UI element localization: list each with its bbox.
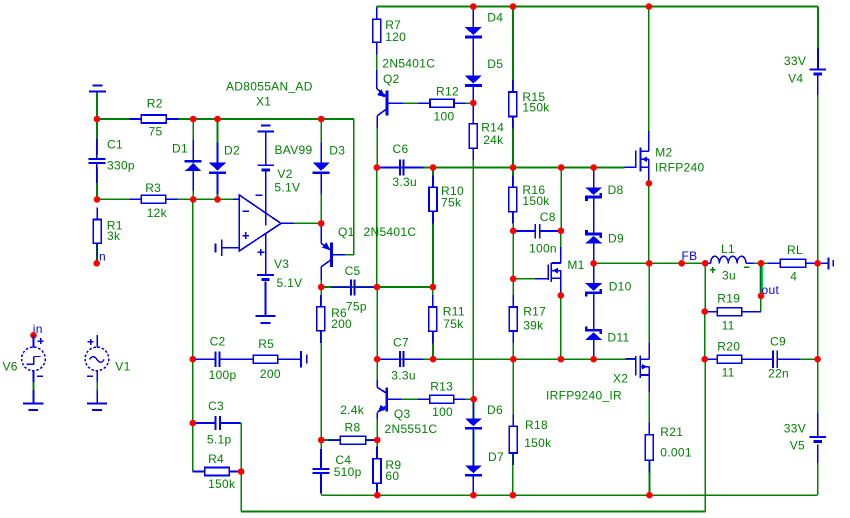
svg-text:100n: 100n	[529, 241, 557, 255]
svg-text:2.4k: 2.4k	[340, 403, 365, 417]
svg-text:39k: 39k	[523, 318, 544, 332]
svg-text:C5: C5	[345, 264, 361, 278]
wire FB output row	[594, 262, 706, 264]
wire col J FB to R19	[704, 263, 706, 311]
svg-text:12k: 12k	[147, 206, 168, 220]
ground V1	[87, 404, 107, 411]
wire R3 row y199	[97, 198, 234, 200]
wire V4 right rail upper	[817, 7, 819, 49]
svg-text:Q3: Q3	[394, 407, 411, 421]
svg-text:5.1V: 5.1V	[274, 180, 300, 194]
wire M1 drain lead	[560, 231, 562, 263]
wire col D C5 to C7	[376, 287, 378, 359]
wire D7 bottom	[472, 478, 474, 496]
svg-text:R13: R13	[430, 379, 453, 393]
diode D4	[465, 7, 482, 58]
svg-text:150k: 150k	[522, 100, 550, 114]
wire R15 top lead	[512, 7, 514, 93]
ground V2 (inverted)	[257, 126, 274, 132]
wire D9 to FB row	[593, 244, 595, 264]
svg-text:V1: V1	[115, 360, 130, 374]
diode D1	[185, 140, 202, 191]
resistor RL	[768, 259, 817, 267]
resistor R6	[317, 295, 325, 343]
wire Q1 base riser	[353, 119, 355, 255]
resistor R20	[705, 355, 754, 363]
svg-text:24k: 24k	[483, 133, 504, 147]
wire R21 bottom	[649, 460, 651, 495]
ground V3	[255, 316, 275, 323]
svg-text:2N5551C: 2N5551C	[385, 422, 438, 436]
zener D9	[585, 213, 602, 264]
resistor R8	[328, 436, 377, 444]
svg-text:IRFP9240_IR: IRFP9240_IR	[546, 388, 622, 402]
wire R18 leads	[512, 359, 514, 426]
wire C3 right corner	[222, 422, 241, 424]
svg-text:5.1V: 5.1V	[277, 276, 303, 290]
svg-text:11: 11	[722, 366, 735, 380]
wire R15 bottom lead	[512, 117, 514, 168]
svg-text:Q2: Q2	[383, 72, 400, 86]
svg-text:75: 75	[149, 124, 163, 138]
svg-text:33V: 33V	[784, 54, 806, 68]
zener D10	[585, 263, 602, 314]
svg-text:100: 100	[434, 110, 455, 124]
svg-text:C1: C1	[107, 138, 123, 152]
svg-text:75p: 75p	[346, 299, 367, 313]
wire V6 stem green part	[33, 382, 35, 390]
op-amp plus input terminal battery	[216, 240, 222, 257]
wire col D Q3 emitter to R8 row	[376, 413, 378, 441]
wire D1 column	[192, 119, 194, 163]
svg-text:150k: 150k	[208, 477, 236, 491]
capacitor C4	[313, 449, 330, 493]
op-amp X1	[222, 171, 281, 274]
wire C2 row	[193, 358, 214, 360]
L1 minus mark	[744, 266, 750, 268]
svg-text:75k: 75k	[441, 195, 462, 209]
resistor R7	[373, 7, 381, 54]
svg-text:D5: D5	[487, 57, 503, 71]
diode D2	[209, 143, 226, 194]
wire R16 leads	[512, 168, 514, 188]
capacitor C8	[515, 224, 560, 239]
svg-text:D8: D8	[608, 183, 624, 197]
node col A vertical C1	[96, 93, 98, 156]
svg-text:75k: 75k	[443, 317, 464, 331]
svg-text:V6: V6	[3, 360, 18, 374]
svg-text:4: 4	[790, 270, 797, 284]
wire col H down	[560, 168, 562, 231]
svg-text:R3: R3	[145, 181, 161, 195]
wire D10 top	[593, 263, 595, 283]
svg-text:C9: C9	[770, 335, 786, 349]
svg-text:X2: X2	[613, 372, 628, 386]
capacitor C5	[331, 279, 375, 295]
zener D8	[585, 167, 602, 218]
svg-text:120: 120	[385, 30, 406, 44]
wire FB row to V5	[817, 263, 819, 413]
transistor Q3 (NPN 2N5551)	[377, 380, 401, 419]
wire feedback riser left	[240, 423, 242, 512]
wire M2 drain from rail	[648, 7, 650, 152]
wire C3 left lead	[193, 422, 214, 424]
svg-text:100: 100	[432, 405, 453, 419]
resistor R14	[469, 103, 477, 160]
diode D5	[465, 56, 482, 107]
wire C7 row	[377, 358, 433, 360]
resistor R15	[509, 80, 517, 129]
svg-text:M2: M2	[655, 145, 672, 159]
svg-text:D3: D3	[329, 144, 345, 158]
MOSFET X2 (IRFP9240 P-ch)	[626, 343, 650, 392]
svg-text:22n: 22n	[768, 367, 789, 381]
wire col F D4 top	[472, 7, 474, 28]
capacitor C2	[196, 352, 240, 367]
svg-text:3.3u: 3.3u	[392, 175, 417, 189]
resistor R19	[705, 308, 754, 316]
wire RL to terminal	[818, 262, 829, 264]
svg-text:L1: L1	[721, 242, 735, 256]
svg-text:3u: 3u	[722, 269, 736, 283]
wire R1 to node in	[96, 243, 98, 263]
capacitor C3	[195, 416, 240, 430]
wire L1 to out node	[746, 262, 754, 264]
svg-text:R20: R20	[717, 339, 740, 353]
svg-text:Q1: Q1	[338, 225, 355, 239]
source V6 (pulse)	[22, 322, 46, 403]
resistor R13	[418, 395, 466, 403]
svg-text:C8: C8	[540, 210, 556, 224]
wire D11 to gate row	[593, 340, 595, 359]
svg-text:D10: D10	[609, 280, 632, 294]
wire R7 to Q2	[376, 42, 378, 88]
resistor R2	[129, 115, 178, 123]
wire R14 leads	[472, 103, 474, 124]
wire R12 to node	[454, 102, 473, 104]
terminal battery after R5	[301, 351, 307, 368]
wire D10-D11	[593, 296, 595, 327]
wire col D C6 to C5	[376, 168, 378, 288]
svg-text:R4: R4	[208, 452, 224, 466]
wire V5 to bottom rail	[817, 463, 819, 495]
resistor R3	[129, 195, 177, 203]
wire FB node to L1	[705, 262, 710, 264]
wire top +33V rail	[377, 6, 818, 8]
source V1 (sine)	[85, 335, 109, 403]
svg-text:D7: D7	[488, 450, 504, 464]
svg-text:V5: V5	[790, 438, 805, 452]
svg-text:5.1p: 5.1p	[207, 433, 232, 447]
wire V1 stem green part	[96, 382, 98, 390]
MOSFET M1 (N-ch)	[547, 247, 561, 295]
wire M1 gate lead	[513, 278, 535, 280]
svg-text:AD8055AN_AD: AD8055AN_AD	[226, 79, 313, 93]
svg-text:BAV99: BAV99	[275, 143, 313, 157]
svg-text:510p: 510p	[334, 465, 362, 479]
svg-text:IRFP240: IRFP240	[655, 160, 704, 174]
capacitor C6	[380, 160, 424, 176]
svg-text:2N5401C: 2N5401C	[382, 57, 435, 71]
resistor R21	[645, 423, 653, 473]
wire D2 column	[217, 119, 219, 163]
svg-text:out: out	[762, 283, 780, 297]
wire V2 stem	[265, 131, 267, 164]
wire V4 to FB row	[817, 95, 819, 263]
svg-text:R12: R12	[436, 85, 459, 99]
wire R9 leads	[376, 440, 378, 459]
wire M1 source to row	[560, 295, 562, 359]
svg-text:D4: D4	[487, 11, 503, 25]
svg-text:D9: D9	[608, 231, 624, 245]
wire R8 row	[321, 439, 377, 441]
wire R20 row left	[705, 358, 718, 360]
capacitor C1	[88, 139, 105, 183]
svg-text:3k: 3k	[107, 229, 121, 243]
wire Q2 base to R12	[389, 102, 430, 104]
wire R20 to C9	[742, 358, 773, 360]
wire col D Q3 collector lead	[376, 359, 378, 387]
battery V4 +33V	[810, 48, 827, 95]
wire out highlighted net	[759, 263, 763, 296]
wire V3 stem	[265, 281, 267, 315]
capacitor C7	[380, 351, 424, 367]
wire R11 leads	[432, 287, 434, 307]
wire col B down from R3 row	[192, 199, 194, 359]
svg-text:0.001: 0.001	[660, 446, 692, 460]
wire R4 left lead	[193, 471, 205, 473]
ground top-left input	[89, 86, 106, 92]
svg-text:100p: 100p	[209, 368, 237, 382]
svg-text:V4: V4	[788, 71, 803, 85]
wire D6 leads	[473, 399, 475, 418]
wire C6 row / bias rail y167.5	[377, 167, 625, 169]
svg-text:R18: R18	[525, 418, 548, 432]
wire C4 leads	[320, 440, 322, 467]
wire bottom rail	[321, 494, 817, 496]
wire R6 leads	[320, 287, 322, 307]
L1 plus mark	[710, 269, 716, 271]
wire D5 to R12 node	[472, 87, 474, 103]
resistor R1	[93, 208, 101, 256]
wire M2 source down	[648, 167, 650, 183]
resistor R16	[509, 175, 517, 223]
svg-text:C2: C2	[210, 334, 226, 348]
svg-text:D6: D6	[487, 403, 503, 417]
wire col B C3-R4	[192, 423, 194, 472]
wire col J R19 to R20	[704, 312, 706, 360]
svg-text:R8: R8	[345, 420, 361, 434]
svg-text:R21: R21	[660, 425, 683, 439]
resistor R12	[418, 99, 466, 107]
battery V2	[257, 165, 274, 171]
svg-text:200: 200	[260, 367, 281, 381]
svg-text:200: 200	[331, 317, 352, 331]
capacitor C9	[753, 350, 797, 368]
wire R5 to terminal	[278, 358, 301, 360]
diode D7	[465, 445, 482, 496]
wire col B C2-C3	[192, 359, 194, 423]
wire Q1 collector to C5 row	[320, 267, 322, 287]
diode D6	[465, 398, 482, 449]
resistor R9	[373, 447, 381, 496]
resistor R5	[241, 355, 289, 363]
svg-text:R17: R17	[523, 304, 546, 318]
svg-text:D2: D2	[224, 144, 240, 158]
svg-text:D1: D1	[172, 142, 188, 156]
wire M2 source to FB row	[648, 183, 650, 263]
svg-text:C7: C7	[393, 335, 409, 349]
resistor R18	[509, 414, 517, 465]
wire D3 column	[320, 119, 322, 163]
diode D3	[313, 143, 330, 194]
svg-text:R2: R2	[147, 96, 163, 110]
wire R13 row	[388, 398, 430, 400]
terminal battery after RL	[829, 257, 834, 269]
wire X2 drain lead	[648, 263, 650, 359]
transistor Q1 (PNP)	[321, 226, 345, 280]
wire out node to RL	[761, 262, 780, 264]
svg-text:150k: 150k	[524, 436, 552, 450]
svg-text:2N5401C: 2N5401C	[364, 225, 417, 239]
resistor R11	[429, 295, 437, 343]
wire feedback riser right	[704, 359, 706, 511]
svg-text:150k: 150k	[522, 194, 550, 208]
wire R10 leads	[432, 168, 434, 188]
wire opamp output	[281, 222, 321, 224]
svg-text:X1: X1	[256, 94, 271, 108]
zener D11	[585, 309, 602, 360]
wire C7 row to X2 gate	[433, 358, 635, 360]
svg-text:C6: C6	[393, 142, 409, 156]
svg-text:C3: C3	[208, 399, 224, 413]
svg-text:V2: V2	[277, 167, 292, 181]
wire feedback lower rail	[241, 511, 705, 513]
wire D8 chain top	[593, 168, 595, 188]
wire R17 leads	[512, 279, 514, 307]
svg-text:D11: D11	[607, 331, 629, 345]
svg-text:RL: RL	[787, 243, 803, 257]
svg-text:11: 11	[722, 319, 735, 333]
wire R7 top lead	[376, 7, 378, 20]
ground V6	[23, 404, 43, 411]
wire C2 to R5	[222, 358, 254, 360]
svg-text:33V: 33V	[784, 421, 806, 435]
wire D4-D5	[472, 39, 474, 76]
svg-text:R5: R5	[258, 337, 274, 351]
transistor Q2 (PNP)	[377, 70, 403, 128]
battery V3	[257, 275, 274, 281]
wire Q1 emitter lead	[320, 223, 322, 243]
wire X2 source to R21	[648, 375, 650, 435]
wire C9 right	[777, 358, 800, 360]
wire D6-D7	[473, 430, 475, 465]
battery V5 -33V	[809, 413, 826, 463]
resistor R10	[429, 175, 437, 223]
wire C5 row	[321, 286, 433, 288]
inductor L1	[711, 256, 747, 263]
wire D8-D9	[593, 199, 595, 224]
wire out node to R19	[760, 296, 762, 312]
MOSFET M2 (IRFP240 N-ch)	[635, 131, 649, 183]
svg-text:60: 60	[385, 469, 399, 483]
wire R4 right lead	[229, 471, 241, 473]
svg-text:V3: V3	[274, 257, 289, 271]
svg-text:330p: 330p	[107, 158, 135, 172]
wire input top rail y119	[97, 118, 354, 120]
wire col D Q2 collector	[376, 128, 378, 168]
svg-text:M1: M1	[567, 258, 584, 272]
resistor R17	[509, 295, 517, 343]
wire C8 left to M1 gate node	[512, 231, 514, 279]
resistor R4	[193, 468, 242, 476]
wire RL right lead	[806, 262, 818, 264]
wire R19 row	[705, 311, 718, 313]
svg-text:3.3u: 3.3u	[391, 368, 416, 382]
svg-text:R19: R19	[717, 292, 740, 306]
